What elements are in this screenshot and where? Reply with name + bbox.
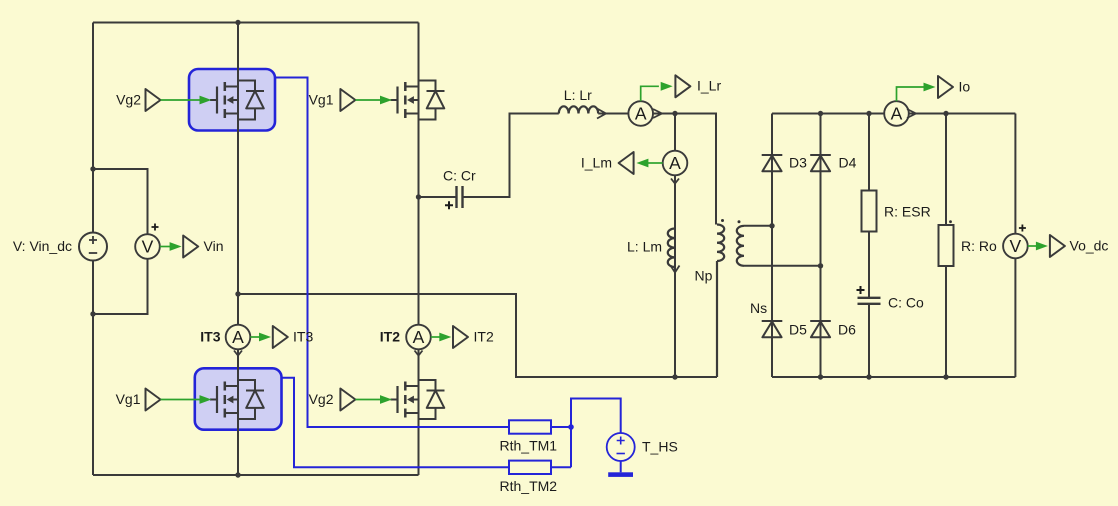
thermal wire from top heat sink to Rth_TM1 [275,78,509,428]
svg-text:A: A [891,104,903,124]
capacitor C: Co [858,298,881,304]
wire transformer secondary bottom lead [744,265,821,267]
wire voltmeter branch lower [93,259,148,314]
svg-text:C: Co: C: Co [888,295,924,311]
wire leg B (Vg1/Vg2 half-bridge right) [418,23,420,476]
junction dot C:Cr tap on leg B [416,194,421,199]
MOSFET top-left with body diode (gate Vg2) [210,81,264,120]
diode D3 [762,155,783,171]
wire from C:Cr to L:Lr riser [463,114,559,198]
svg-text:Np: Np [695,268,713,284]
polarity dot secondary [738,220,741,223]
svg-text:IT3: IT3 [200,328,220,344]
svg-text:I_Lr: I_Lr [697,78,721,94]
MOSFET bottom-right with body diode (gate Vg2) [391,380,445,419]
wire rectifier bottom rail [772,376,1015,378]
junction dot bottom rail / D6 leg [818,374,823,379]
current direction arrow after ammeter Io [907,109,916,118]
svg-text:Rth_TM2: Rth_TM2 [500,478,558,494]
svg-text:D3: D3 [789,155,807,171]
svg-text:C: Cr: C: Cr [443,168,476,184]
plus sign of C: Co [857,286,865,294]
current direction arrow after L: Lr [597,109,606,119]
thermal wire node to T_HS [571,399,621,468]
wire left rail [92,23,94,476]
wire top rail [93,22,419,24]
capacitor C: Cr [457,186,463,208]
wire magnetizing branch [674,114,676,378]
svg-text:A: A [635,104,647,124]
svg-text:A: A [232,327,244,347]
junction dot top rail / load leg [943,111,948,116]
svg-text:R: ESR: R: ESR [884,204,931,220]
svg-text:Vg1: Vg1 [116,391,141,407]
plus sign of C: Cr [445,201,453,209]
diode D6 [810,321,831,337]
MOSFET top-right with body diode (gate Vg1) [391,81,445,120]
thermal resistor Rth_TM2 [509,461,551,474]
junction dot bottom rail / load leg [943,374,948,379]
thermal resistor Rth_TM1 [509,420,551,433]
signal port IT3 [250,333,271,342]
junction dot tank top node [672,111,677,116]
ammeter IT2 [406,325,431,350]
inductor L: Lm [668,229,675,268]
svg-text:A: A [669,153,681,173]
wire voltmeter branch upper [93,169,148,234]
svg-text:IT3: IT3 [293,328,313,344]
svg-text:IT2: IT2 [474,328,494,344]
polarity dot primary [721,219,724,222]
thermal wire from bottom heat sink to Rth_TM2 [282,378,510,468]
svg-text:V: V [1010,236,1022,256]
svg-text:V: Vin_dc: V: Vin_dc [13,238,72,254]
thermal source T_HS [607,433,635,461]
heat sink box around top-left MOSFET [189,69,275,131]
resistor R: Ro [939,225,954,266]
signal port Vo_dc [1028,242,1048,251]
svg-text:L: Lm: L: Lm [627,239,662,255]
svg-text:Vin: Vin [204,238,224,254]
diode D5 [762,321,783,337]
svg-text:Vg1: Vg1 [309,91,334,107]
wire rectifier top rail [772,113,1015,115]
wire output cap leg [868,114,870,378]
junction dot top rail / ESR leg [866,111,871,116]
thermal ground bar [608,472,633,477]
current direction arrow below ammeter IT2 [415,351,423,356]
voltage source V: Vin_dc [79,233,107,261]
ammeter Io [884,101,909,126]
wire rectifier leg D3/D5 [771,114,773,378]
thermal ground lead [620,461,622,472]
current direction arrow below ammeter I_Lm [671,179,679,184]
transformer primary winding Np [717,225,724,378]
ammeter I_Lr [628,101,653,126]
junction dot secondary bottom / D4 leg [818,263,823,268]
diode D4 [810,155,831,171]
junction dot secondary top / D3 leg [769,223,774,228]
inductor L: Lr [559,106,598,113]
svg-text:Io: Io [959,78,971,94]
wire leg A (Vg2/Vg1 half-bridge left) [237,23,239,476]
heat sink box around bottom-left MOSFET [195,368,282,429]
current direction arrow after ammeter I_Lr [653,109,662,118]
svg-text:V: V [142,237,154,257]
svg-text:Vg2: Vg2 [309,391,334,407]
current direction arrow below ammeter IT3 [234,351,242,356]
voltmeter Vin [135,224,160,259]
wire transformer secondary top lead [744,225,772,227]
svg-text:Vo_dc: Vo_dc [1070,237,1109,253]
signal port I_Lm [636,159,662,168]
resistor R: ESR [862,191,877,232]
junction dot leg A / mid rail [235,291,240,296]
svg-text:T_HS: T_HS [642,439,678,455]
wire load leg [945,114,947,378]
svg-text:Ns: Ns [750,300,767,316]
transformer secondary winding Ns [737,226,744,266]
junction dot voltmeter branch upper [90,166,95,171]
svg-text:A: A [413,327,425,347]
thermal node junction dot [568,424,574,430]
signal port IT2 [431,333,452,342]
ammeter IT3 [226,325,251,350]
wire bottom rail [93,474,419,476]
svg-text:I_Lm: I_Lm [581,154,612,170]
svg-text:D4: D4 [839,155,857,171]
signal port Io [897,83,936,102]
thermal wire Rth_TM1 to node [551,426,571,428]
ammeter I_Lm [663,151,688,176]
signal port Vin [160,242,182,251]
junction dot bottom rail / cap leg [866,374,871,379]
polarity dot of R: Ro [949,220,952,223]
signal port I_Lr [641,82,673,101]
junction dot top rail / leg A [235,20,240,25]
wire C:Cr left lead [419,196,457,198]
current direction arrow below L: Lm [671,266,680,273]
junction dot leg A / bottom rail [235,472,240,477]
svg-text:R: Ro: R: Ro [961,238,997,254]
svg-text:D5: D5 [789,322,807,338]
thermal wire Rth_TM2 to node [551,466,571,468]
junction dot voltmeter branch lower [90,311,95,316]
voltmeter Vo_dc [1003,225,1028,259]
svg-text:D6: D6 [838,322,856,338]
wire from L:Lr to ammeter and tank node [598,114,716,225]
MOSFET bottom-left with body diode (gate Vg1) [210,380,264,419]
junction dot Lm / tank return rail [672,374,677,379]
svg-text:Vg2: Vg2 [116,91,141,107]
svg-text:L: Lr: L: Lr [564,87,592,103]
junction dot top rail / D4 leg [818,111,823,116]
svg-text:Rth_TM1: Rth_TM1 [500,438,558,454]
wire rectifier leg D4/D6 [820,114,822,378]
wire mid rail from leg A to tank return [238,294,717,377]
svg-text:IT2: IT2 [380,328,400,344]
wire output right leg [1014,114,1016,378]
